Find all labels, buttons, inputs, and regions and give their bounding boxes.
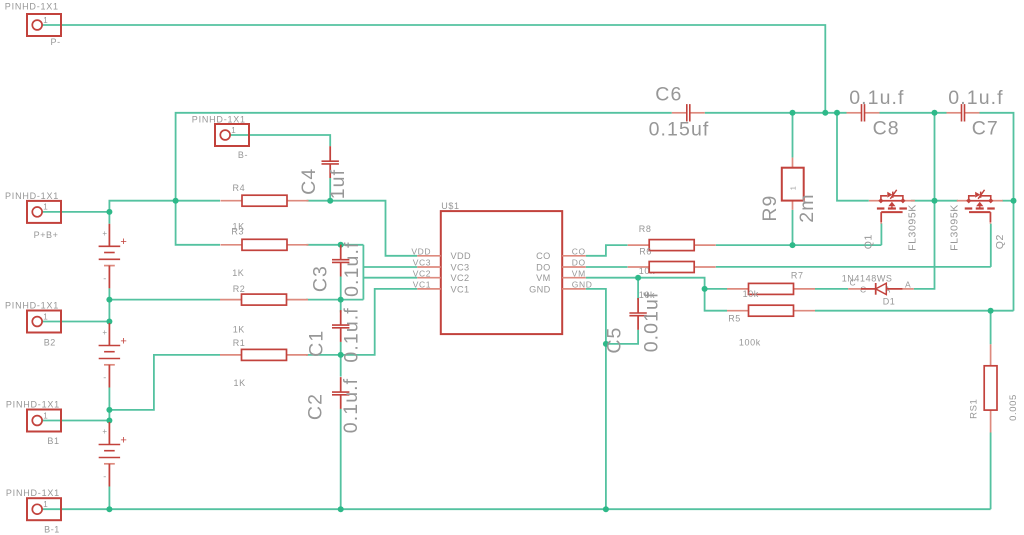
svg-text:0.1u.f: 0.1u.f [340, 378, 362, 433]
svg-text:0.1u.f: 0.1u.f [849, 87, 904, 109]
svg-text:1K: 1K [234, 378, 246, 388]
svg-text:0.15uf: 0.15uf [649, 118, 710, 140]
capacitor C3 [332, 245, 349, 277]
svg-text:-: - [103, 472, 106, 482]
svg-text:P+B+: P+B+ [34, 230, 59, 240]
wire C5 bottom to GND [606, 330, 638, 344]
junction node J7 [106, 297, 112, 303]
connector JP4 B2 (PINHD-1X1) [5, 301, 61, 348]
capacitor C6 (0.15uf) [672, 104, 705, 121]
svg-text:DO: DO [572, 258, 586, 268]
svg-text:C7: C7 [972, 117, 999, 139]
junction node J23 [1011, 198, 1017, 204]
svg-text:VM: VM [572, 268, 586, 278]
connector JP2 B- (PINHD-1X1) [192, 114, 249, 160]
capacitor C2 [332, 377, 349, 409]
svg-text:+: + [120, 335, 126, 347]
wire C1 green top [340, 300, 342, 313]
transistor Q1 (FL3095K) [869, 190, 915, 224]
svg-text:CO: CO [572, 247, 586, 257]
svg-text:+: + [102, 328, 107, 337]
svg-text:R8: R8 [639, 224, 652, 234]
svg-text:100k: 100k [739, 337, 761, 347]
wire battery stack seg1 [108, 212, 110, 224]
wire B1 pin to stack [42, 420, 109, 422]
junction node J6 [338, 352, 344, 358]
svg-text:1: 1 [791, 186, 798, 190]
wire bottom rail B-1 [42, 508, 991, 510]
wire Q1 gate down [880, 223, 882, 245]
svg-text:VC3: VC3 [413, 258, 431, 268]
svg-text:0.1u.f: 0.1u.f [948, 87, 1003, 109]
svg-text:10k: 10k [743, 289, 759, 299]
svg-text:+: + [102, 229, 107, 238]
resistor R9 (2m) [782, 158, 804, 210]
wire battery stack seg4 [108, 487, 110, 510]
junction node J13 [603, 506, 609, 512]
svg-text:+: + [120, 434, 126, 446]
svg-text:Q1: Q1 [863, 234, 875, 249]
resistor R1 [220, 349, 308, 360]
wire R1 feed from stack [109, 355, 220, 410]
svg-text:0.1u.f: 0.1u.f [341, 307, 363, 362]
svg-text:DO: DO [536, 262, 550, 272]
wire C1 green bottom [340, 342, 342, 355]
svg-text:-: - [103, 373, 106, 383]
svg-text:RS1: RS1 [968, 399, 979, 419]
wire VM node to R7 [705, 288, 727, 290]
junction node J12 [338, 506, 344, 512]
junction node J1 [106, 209, 112, 215]
connector JP6 B-1 (PINHD-1X1) [6, 488, 61, 535]
wire C8 right to C7 left [880, 112, 947, 114]
svg-text:R4: R4 [233, 183, 246, 193]
svg-text:C4: C4 [298, 168, 320, 195]
wire RS1 bottom green [990, 433, 992, 510]
svg-text:C2: C2 [305, 393, 327, 420]
svg-text:R3: R3 [231, 227, 244, 237]
wire junction up to R4 row [109, 201, 220, 212]
junction node J24 [988, 308, 994, 314]
wire R8 out to Q1 gate node [716, 244, 882, 246]
svg-text:R1: R1 [233, 338, 246, 348]
battery cell G2 [99, 323, 127, 388]
resistor R2 [220, 294, 308, 305]
svg-text:B1: B1 [47, 436, 59, 446]
junction node J15 [635, 275, 641, 281]
wire B2 pin to stack [42, 321, 109, 323]
junction node J4 [338, 242, 344, 248]
svg-text:R9: R9 [759, 195, 781, 222]
svg-text:C8: C8 [873, 117, 900, 139]
svg-text:+: + [102, 427, 107, 436]
svg-text:FL3095K: FL3095K [949, 204, 961, 251]
wire CO to R8 [586, 245, 628, 256]
svg-text:2m: 2m [796, 193, 818, 222]
svg-text:Q2: Q2 [994, 234, 1006, 249]
wire C2 green top [340, 355, 342, 377]
junction node J2 [173, 198, 179, 204]
junction node J22 [932, 198, 938, 204]
wire R2 feed [109, 299, 220, 301]
wire C4 bottom to VDD node [329, 178, 331, 201]
svg-text:1K: 1K [232, 268, 244, 278]
svg-text:B-1: B-1 [44, 525, 60, 535]
wire R9 top green [792, 113, 794, 158]
wire C6 right to C8 left [705, 112, 847, 114]
wire VC2 tap from node [341, 299, 364, 301]
diode D1 (1N4148WS) [848, 277, 914, 294]
svg-text:PINHD-1X1: PINHD-1X1 [5, 2, 59, 12]
wire C5 top green [637, 278, 639, 300]
svg-text:R2: R2 [233, 284, 246, 294]
capacitor C5 [629, 298, 646, 330]
svg-text:1uf: 1uf [327, 169, 349, 199]
wire R4 out to VDD pin [307, 201, 418, 256]
wire B- net horizontal / vertical to R3 [176, 113, 672, 245]
junction node J16 [702, 286, 708, 292]
wire C3 green top [340, 245, 342, 247]
wire C2 green bottom to rail [340, 409, 342, 509]
svg-text:0.1u.f: 0.1u.f [341, 242, 363, 297]
svg-text:1: 1 [43, 312, 48, 321]
wire R1 out to C node [306, 354, 341, 356]
wire VM line [586, 278, 705, 289]
svg-text:R6: R6 [639, 247, 652, 257]
wire Q1 to Q2 link [911, 200, 958, 202]
wire R9 bottom green [792, 210, 794, 245]
battery cell G3 [99, 422, 127, 487]
svg-text:PINHD-1X1: PINHD-1X1 [6, 488, 60, 498]
svg-text:-: - [103, 273, 106, 283]
wire RS1 top green [990, 311, 992, 345]
wire VC3 to pin [363, 266, 417, 268]
IC U$1 battery protection [411, 201, 592, 334]
wire VC2 to pin [363, 277, 417, 279]
svg-text:0.01uf: 0.01uf [641, 291, 663, 352]
svg-text:1N4148WS: 1N4148WS [842, 274, 893, 284]
wire B- pin to C4 [230, 135, 330, 146]
resistor R8 [628, 240, 716, 251]
svg-text:C3: C3 [310, 265, 332, 292]
svg-text:R5: R5 [728, 314, 741, 324]
junction node J9 [106, 407, 112, 413]
wire R6 out long to Q2 gate [716, 266, 991, 268]
svg-text:+: + [120, 236, 126, 248]
svg-text:PINHD-1X1: PINHD-1X1 [5, 191, 59, 201]
svg-text:1: 1 [231, 126, 236, 135]
wire R2 out to C node [306, 299, 341, 301]
svg-text:P-: P- [51, 37, 61, 47]
svg-text:A: A [905, 280, 911, 290]
capacitor C8 (0.1u.f) [847, 104, 880, 121]
svg-text:VDD: VDD [451, 251, 471, 261]
junction node J10 [106, 418, 112, 424]
wire GND down to rail [586, 289, 606, 509]
wire down to R5 [705, 289, 727, 311]
svg-text:GND: GND [529, 284, 550, 294]
svg-text:C5: C5 [604, 327, 626, 354]
junction node J17 [790, 242, 796, 248]
wire VC3/VC2 tap vertical [362, 245, 364, 300]
junction node J8 [106, 319, 112, 325]
svg-text:0.005: 0.005 [1008, 394, 1019, 421]
svg-text:1: 1 [43, 203, 48, 212]
resistor R5 [727, 305, 815, 316]
wire Q1 left feed [837, 113, 869, 201]
capacitor C7 (0.1u.f) [947, 104, 980, 121]
svg-text:VC2: VC2 [451, 273, 470, 283]
wire battery stack seg2 [108, 288, 110, 323]
wire C3 green bottom [340, 277, 342, 300]
resistor R4 [221, 195, 309, 206]
svg-text:C1: C1 [305, 330, 327, 357]
svg-text:GND: GND [572, 280, 593, 290]
svg-text:VC1: VC1 [451, 284, 470, 294]
wire Q2 gate down [990, 224, 992, 267]
junction node J3 [327, 198, 333, 204]
transistor Q2 (FL3095K) [957, 190, 1003, 224]
svg-text:B-: B- [238, 150, 248, 160]
wire C7 right and down to R5 line [980, 113, 1014, 311]
wire VC1 tap [341, 289, 418, 355]
junction node J5 [338, 297, 344, 303]
junction node J21 [932, 110, 938, 116]
svg-text:CO: CO [536, 251, 550, 261]
wire R7 out to D1 [815, 288, 848, 290]
connector JP3 P+B+ (PINHD-1X1) [5, 191, 61, 240]
resistor R7 [727, 283, 815, 294]
svg-text:PINHD-1X1: PINHD-1X1 [6, 400, 60, 410]
svg-text:B2: B2 [44, 338, 56, 348]
svg-text:VM: VM [536, 273, 550, 283]
svg-text:PINHD-1X1: PINHD-1X1 [5, 301, 59, 311]
svg-text:D1: D1 [883, 296, 896, 306]
svg-text:VC2: VC2 [413, 268, 431, 278]
junction node J19 [822, 110, 828, 116]
connector JP5 B1 (PINHD-1X1) [6, 400, 61, 447]
svg-text:C6: C6 [655, 84, 682, 106]
capacitor C4 [322, 146, 339, 178]
resistor RS1 (0.005) [984, 344, 997, 432]
svg-text:1K: 1K [233, 325, 245, 335]
svg-text:VC3: VC3 [451, 262, 470, 272]
resistor R6 [628, 262, 716, 273]
wire R3 out to C3 node [307, 244, 364, 246]
wire DO to R6 [586, 266, 628, 268]
junction node J11 [106, 506, 112, 512]
svg-text:U$1: U$1 [441, 201, 459, 211]
wire P+B+ pin to junction [42, 211, 109, 213]
junction node J18 [790, 110, 796, 116]
svg-text:1: 1 [43, 500, 48, 509]
svg-text:1: 1 [43, 16, 48, 25]
svg-text:VDD: VDD [411, 247, 431, 257]
svg-text:PINHD-1X1: PINHD-1X1 [192, 114, 246, 124]
battery cell G1 [99, 224, 127, 288]
junction node J14 [603, 341, 609, 347]
svg-text:R7: R7 [791, 270, 804, 280]
wire D1 anode up [914, 113, 935, 289]
capacitor C1 [332, 310, 349, 342]
svg-text:VC1: VC1 [413, 280, 431, 290]
wire R5 out to corner [815, 310, 1014, 312]
wire Q2 right to C7 line [1002, 200, 1013, 202]
connector JP1 P- (PINHD-1X1) [5, 2, 61, 48]
wire P- rail top [42, 25, 825, 113]
resistor R3 [221, 239, 309, 250]
svg-text:1: 1 [43, 411, 48, 420]
svg-text:FL3095K: FL3095K [907, 204, 919, 251]
junction node J20 [834, 110, 840, 116]
wire battery stack seg3 [108, 388, 110, 423]
